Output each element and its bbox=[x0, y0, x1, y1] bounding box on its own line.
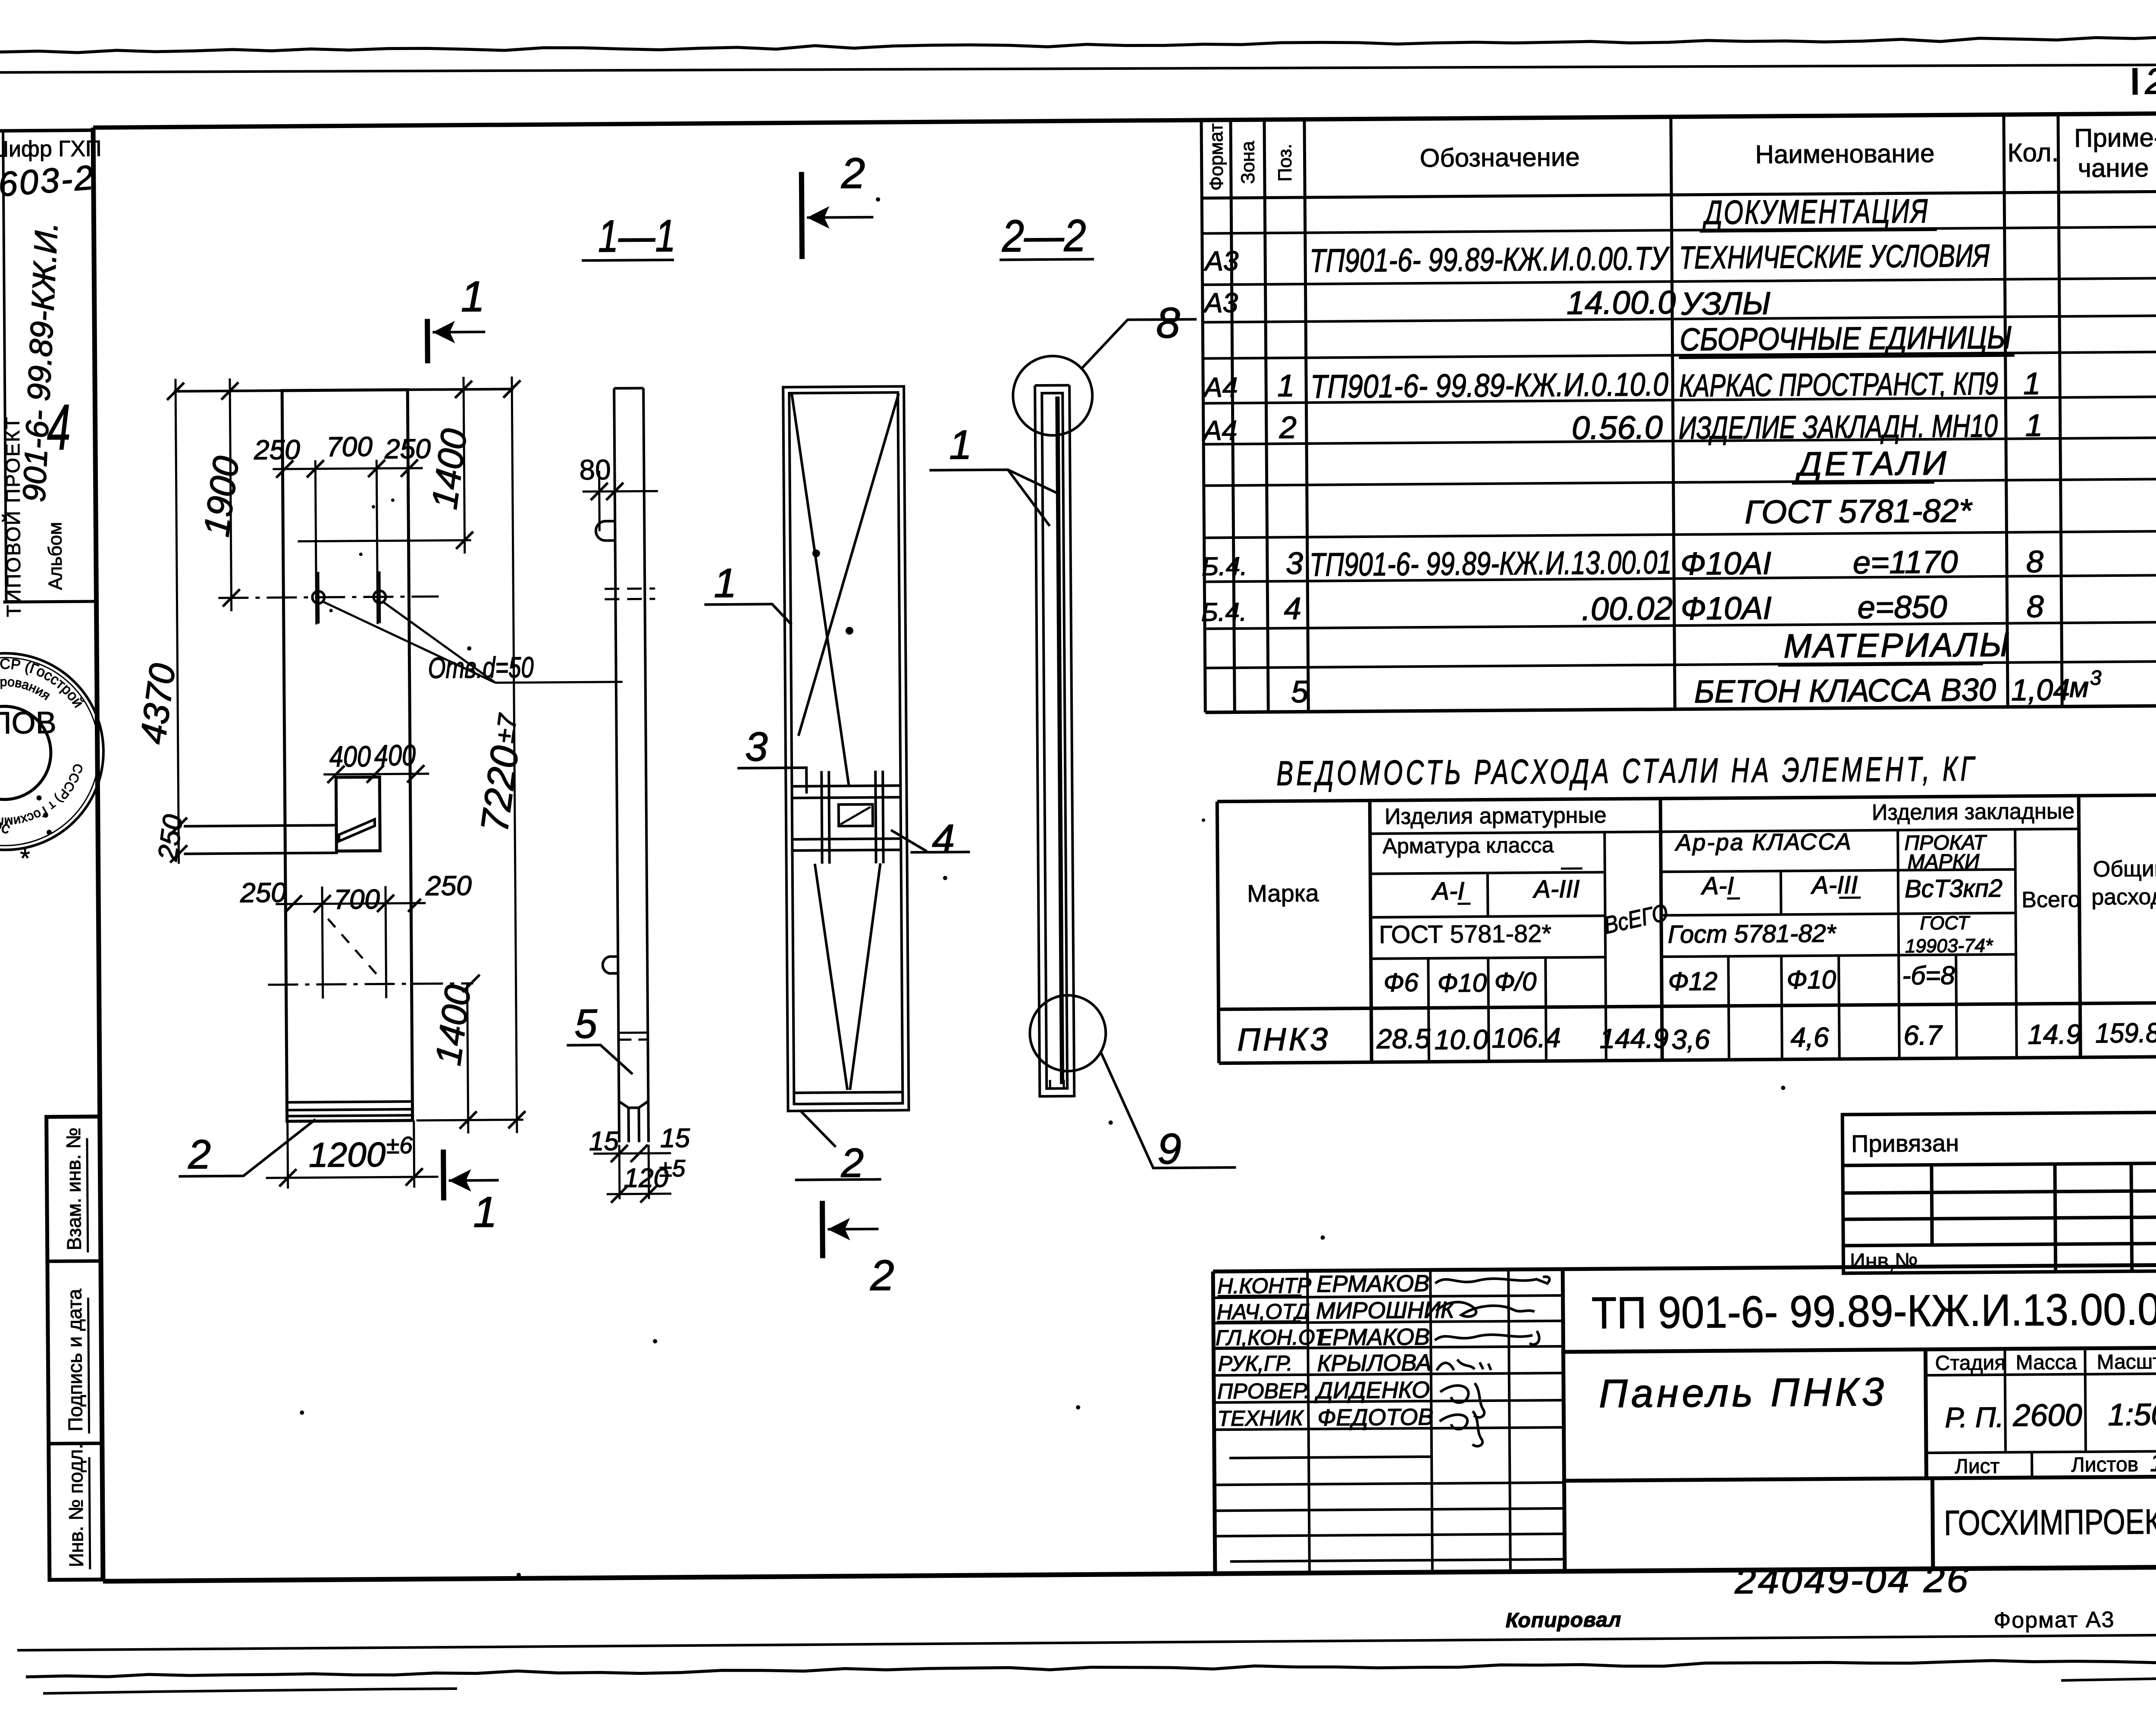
svg-text:ПРОВЕР.: ПРОВЕР. bbox=[1217, 1379, 1310, 1403]
torn paper edge top bbox=[0, 37, 2156, 53]
svg-text:1: 1 bbox=[2023, 366, 2041, 401]
svg-text:10.0: 10.0 bbox=[1434, 1024, 1488, 1055]
panel outline bbox=[282, 390, 413, 1121]
svg-text:А-I: А-I bbox=[1431, 877, 1465, 905]
svg-text:.00.02: .00.02 bbox=[1581, 590, 1673, 627]
svg-text:ТП901-6- 99.89-КЖ.И.13.00.01: ТП901-6- 99.89-КЖ.И.13.00.01 bbox=[1310, 544, 1672, 583]
svg-text:ТП901-6- 99.89-КЖ.И.0.00.ТУ: ТП901-6- 99.89-КЖ.И.0.00.ТУ bbox=[1310, 240, 1670, 279]
svg-text:Марка: Марка bbox=[1247, 879, 1319, 907]
cage outer rect bbox=[783, 386, 909, 1111]
svg-text:Изделия арматурные: Изделия арматурные bbox=[1385, 803, 1607, 829]
outer U bbox=[1035, 385, 1074, 1097]
svg-text:4: 4 bbox=[47, 391, 71, 463]
svg-text:ИЗДЕЛИЕ ЗАКЛАДН. МН10: ИЗДЕЛИЕ ЗАКЛАДН. МН10 bbox=[1679, 408, 1998, 446]
svg-text:25: 25 bbox=[2144, 61, 2156, 102]
svg-text:3: 3 bbox=[1286, 546, 1304, 581]
dim 80 bbox=[598, 471, 601, 531]
svg-text:ВЕДОМОСТЬ РАСХОДА СТАЛИ НА ЭЛЕ: ВЕДОМОСТЬ РАСХОДА СТАЛИ НА ЭЛЕМЕНТ, КГ bbox=[1276, 749, 1977, 792]
bottom fork bbox=[619, 1101, 629, 1142]
ledge notch mid-left bbox=[184, 825, 338, 826]
section mark 1 top bbox=[425, 319, 430, 363]
side view outline bbox=[614, 387, 643, 389]
svg-text:Общий: Общий bbox=[2093, 856, 2156, 882]
svg-text:А4: А4 bbox=[1202, 372, 1238, 403]
svg-text:ГОСХИМПРОЕКТ: ГОСХИМПРОЕКТ bbox=[1944, 1502, 2156, 1543]
svg-text:м: м bbox=[2069, 671, 2089, 703]
svg-text:1: 1 bbox=[2025, 408, 2043, 443]
svg-text:250: 250 bbox=[384, 433, 431, 465]
svg-text:1:50: 1:50 bbox=[2108, 1397, 2156, 1432]
round stamp bbox=[0, 653, 104, 851]
svg-text:Привязан: Привязан bbox=[1851, 1129, 1959, 1158]
hole right bbox=[373, 591, 385, 603]
svg-text:14.9: 14.9 bbox=[2028, 1019, 2081, 1050]
section mark 2 bottom bbox=[820, 1201, 825, 1258]
svg-text:2: 2 bbox=[1279, 410, 1297, 445]
svg-text:ТЕХНИЧЕСКИЕ УСЛОВИЯ: ТЕХНИЧЕСКИЕ УСЛОВИЯ bbox=[1679, 238, 1990, 275]
dim 120 +-5 bbox=[618, 1145, 621, 1199]
svg-text:250: 250 bbox=[254, 434, 301, 466]
svg-text:e=850: e=850 bbox=[1857, 589, 1947, 625]
svg-text:Гост 5781-82*: Гост 5781-82* bbox=[1668, 920, 1837, 949]
torn paper edge bottom bbox=[26, 1661, 2156, 1677]
svg-text:-б=8: -б=8 bbox=[1902, 961, 1955, 990]
svg-text:ГЛ,КОН.ОТ: ГЛ,КОН.ОТ bbox=[1216, 1325, 1330, 1350]
svg-text:Всего: Всего bbox=[2021, 887, 2081, 913]
svg-text:144.9: 144.9 bbox=[1599, 1023, 1669, 1054]
thin page border top bbox=[0, 65, 2156, 72]
svg-text:4,6: 4,6 bbox=[1790, 1022, 1829, 1053]
svg-text:Арматура класса: Арматура класса bbox=[1382, 833, 1554, 858]
dim 250 ledge bbox=[170, 818, 188, 863]
svg-text:14.00.0: 14.00.0 bbox=[1567, 284, 1676, 322]
svg-text:МАРКИ: МАРКИ bbox=[1908, 850, 1980, 873]
svg-text:Масштаб: Масштаб bbox=[2096, 1350, 2156, 1373]
lower centerline bbox=[268, 983, 473, 985]
dim 250 700 250 top bbox=[273, 468, 423, 469]
svg-text:80: 80 bbox=[579, 454, 611, 485]
svg-text:2: 2 bbox=[188, 1132, 211, 1177]
svg-text:Ф10: Ф10 bbox=[1437, 968, 1487, 998]
svg-text:ДОКУМЕНТАЦИЯ: ДОКУМЕНТАЦИЯ bbox=[1702, 192, 1929, 232]
svg-text:±5: ±5 bbox=[659, 1155, 686, 1182]
svg-text:4: 4 bbox=[932, 816, 955, 862]
svg-text:ДИДЕНКО: ДИДЕНКО bbox=[1314, 1377, 1430, 1404]
svg-text:А4: А4 bbox=[1202, 415, 1238, 446]
svg-text:Отв.d=50: Отв.d=50 bbox=[428, 651, 534, 685]
svg-text:КРЫЛОВА: КРЫЛОВА bbox=[1317, 1350, 1431, 1377]
svg-text:УЗЛЫ: УЗЛЫ bbox=[1681, 285, 1771, 322]
svg-text:РУК,ГР.: РУК,ГР. bbox=[1218, 1351, 1292, 1376]
svg-text:1—1: 1—1 bbox=[598, 211, 676, 262]
svg-text:ДЕТАЛИ: ДЕТАЛИ bbox=[1795, 444, 1949, 483]
svg-text:КАРКАС ПРОСТРАНСТ, КП9: КАРКАС ПРОСТРАНСТ, КП9 bbox=[1679, 366, 1999, 404]
inner U bbox=[1042, 393, 1067, 1089]
svg-text:А3: А3 bbox=[1203, 245, 1239, 277]
dim 1200+-6 bbox=[288, 1121, 288, 1189]
small console box bbox=[336, 777, 380, 851]
dim 7220+-7 line bbox=[512, 376, 517, 1133]
section mark 1 bottom bbox=[441, 1150, 446, 1201]
svg-text:1: 1 bbox=[461, 272, 485, 321]
dim 250 700 250 lower bbox=[276, 903, 426, 904]
holes centerline bbox=[218, 597, 439, 598]
svg-text:ГОСТ 5781-82*: ГОСТ 5781-82* bbox=[1745, 492, 1973, 531]
svg-text:Лист: Лист bbox=[1955, 1455, 2000, 1478]
svg-text:Инв. № подл.: Инв. № подл. bbox=[64, 1444, 88, 1567]
dim 400 400 bbox=[323, 774, 429, 775]
panel top extension line bbox=[174, 389, 514, 391]
svg-text:Кол.: Кол. bbox=[2007, 138, 2059, 167]
page number 25 bbox=[2132, 68, 2137, 95]
svg-text:Панель ПНК3: Панель ПНК3 bbox=[1599, 1370, 1888, 1416]
svg-text:Ф12: Ф12 bbox=[1668, 967, 1717, 996]
svg-text:Приме-: Приме- bbox=[2074, 123, 2156, 152]
svg-text:15: 15 bbox=[589, 1126, 619, 1156]
svg-text:1: 1 bbox=[1277, 369, 1295, 403]
svg-text:А-III: А-III bbox=[1532, 875, 1580, 904]
svg-text:400: 400 bbox=[374, 739, 416, 772]
svg-text:2: 2 bbox=[870, 1251, 894, 1299]
svg-text:2—2: 2—2 bbox=[1001, 210, 1086, 261]
svg-text:ГОСТ 5781-82*: ГОСТ 5781-82* bbox=[1379, 920, 1552, 949]
svg-text:Ф10АI: Ф10АI bbox=[1680, 545, 1772, 582]
svg-text:ЕРМАКОВ: ЕРМАКОВ bbox=[1317, 1324, 1430, 1351]
svg-text:250: 250 bbox=[240, 877, 287, 908]
svg-text:1200: 1200 bbox=[309, 1135, 386, 1174]
svg-text:Листов: Листов bbox=[2071, 1453, 2138, 1477]
svg-text:Копировал: Копировал bbox=[1505, 1608, 1621, 1632]
svg-text:ТП901-6- 99.89-КЖ.И.0.10.0: ТП901-6- 99.89-КЖ.И.0.10.0 bbox=[1310, 366, 1669, 405]
dim 1400 top line bbox=[464, 377, 465, 554]
dashed marks bbox=[605, 588, 655, 590]
lifting loop bottom bbox=[603, 957, 618, 973]
panel bottom strip lines bbox=[287, 1101, 412, 1102]
svg-text:15: 15 bbox=[660, 1123, 690, 1153]
svg-text:250: 250 bbox=[152, 813, 189, 863]
svg-text:8: 8 bbox=[2026, 544, 2044, 579]
svg-text:Ф6: Ф6 bbox=[1383, 968, 1419, 997]
svg-text:603-2: 603-2 bbox=[0, 158, 96, 203]
cage diagonals bbox=[792, 394, 849, 785]
svg-text:28.5: 28.5 bbox=[1376, 1023, 1430, 1054]
dim 1400 bottom bbox=[467, 983, 468, 1133]
detail circle 8 bbox=[1013, 356, 1093, 435]
svg-text:МИРОШНИК: МИРОШНИК bbox=[1316, 1297, 1456, 1324]
thin page border bottom bbox=[17, 1635, 2156, 1650]
svg-text:e=1170: e=1170 bbox=[1853, 544, 1958, 581]
dim 1900 line bbox=[230, 379, 232, 611]
svg-text:Б.4.: Б.4. bbox=[1201, 598, 1247, 627]
svg-text:ТЕХНИК: ТЕХНИК bbox=[1217, 1406, 1304, 1430]
svg-text:БЕТОН КЛАССА В30: БЕТОН КЛАССА В30 bbox=[1694, 672, 1996, 710]
svg-text:24049-04 26: 24049-04 26 bbox=[1734, 1559, 1970, 1601]
svg-text:0.56.0: 0.56.0 bbox=[1572, 409, 1663, 446]
svg-text:±6: ±6 bbox=[386, 1132, 413, 1158]
svg-text:Стадия: Стадия bbox=[1935, 1352, 2006, 1375]
svg-text:400: 400 bbox=[329, 740, 371, 773]
svg-text:ЛОВ: ЛОВ bbox=[0, 706, 56, 741]
svg-text:ВсТ3кп2: ВсТ3кп2 bbox=[1905, 874, 2002, 903]
section mark 2 top bbox=[802, 172, 802, 259]
svg-text:расход: расход bbox=[2091, 884, 2156, 910]
svg-text:8: 8 bbox=[1156, 299, 1181, 347]
svg-text:4: 4 bbox=[1284, 591, 1301, 626]
svg-text:700: 700 bbox=[334, 884, 380, 915]
svg-text:106.4: 106.4 bbox=[1492, 1022, 1561, 1054]
lower diagonals bbox=[815, 863, 848, 1090]
svg-text:Р. П.: Р. П. bbox=[1945, 1401, 2004, 1433]
drawing frame bottom bbox=[103, 1567, 2156, 1581]
svg-text:ПНК3: ПНК3 bbox=[1237, 1021, 1330, 1057]
leader Otv d=50 bbox=[323, 600, 622, 684]
svg-text:Альбом: Альбом bbox=[44, 522, 66, 590]
svg-text:1: 1 bbox=[473, 1188, 497, 1236]
svg-text:Изделия закладные: Изделия закладные bbox=[1872, 799, 2075, 825]
svg-text:6.7: 6.7 bbox=[1903, 1020, 1943, 1051]
svg-text:Инв,№: Инв,№ bbox=[1850, 1248, 1918, 1273]
detail circle 9 bbox=[1030, 995, 1106, 1071]
svg-text:3: 3 bbox=[2090, 666, 2102, 689]
svg-text:Формат А3: Формат А3 bbox=[1993, 1607, 2115, 1633]
left margin top box (Shifr GHP) bbox=[0, 130, 93, 131]
svg-text:Ф10АI: Ф10АI bbox=[1680, 590, 1772, 626]
svg-text:Наименование: Наименование bbox=[1755, 139, 1934, 169]
svg-text:2: 2 bbox=[840, 149, 865, 197]
svg-text:3,6: 3,6 bbox=[1671, 1024, 1710, 1055]
svg-text:Взам. инв. №: Взам. инв. № bbox=[62, 1127, 85, 1250]
svg-text:1: 1 bbox=[949, 422, 972, 468]
svg-text:5: 5 bbox=[1291, 675, 1309, 709]
svg-text:Обозначение: Обозначение bbox=[1420, 143, 1580, 173]
svg-text:2600: 2600 bbox=[2012, 1398, 2082, 1433]
svg-text:8: 8 bbox=[2026, 589, 2044, 624]
svg-text:чание: чание bbox=[2078, 153, 2149, 183]
svg-text:ФЕДОТОВ: ФЕДОТОВ bbox=[1317, 1404, 1433, 1431]
svg-text:А-III: А-III bbox=[1811, 871, 1858, 899]
lifting loop top bbox=[596, 521, 615, 541]
svg-text:1,04: 1,04 bbox=[2011, 673, 2070, 707]
svg-text:Ф/0: Ф/0 bbox=[1494, 967, 1536, 996]
svg-text:ТП 901-6- 99.89-КЖ.И.13.00.0: ТП 901-6- 99.89-КЖ.И.13.00.0 bbox=[1591, 1284, 2156, 1338]
svg-text:*: * bbox=[20, 844, 30, 873]
specks bbox=[876, 197, 880, 202]
svg-text:1: 1 bbox=[2150, 1449, 2156, 1477]
svg-text:ЕРМАКОВ: ЕРМАКОВ bbox=[1316, 1270, 1429, 1297]
mid line pair bbox=[618, 1032, 648, 1034]
drawing frame left bbox=[93, 128, 103, 1581]
svg-text:Зона: Зона bbox=[1237, 141, 1259, 184]
svg-text:Ар-ра КЛАССА: Ар-ра КЛАССА bbox=[1674, 829, 1852, 856]
drawing frame top bbox=[93, 113, 2156, 128]
svg-text:19903-74*: 19903-74* bbox=[1905, 935, 1993, 957]
svg-text:Масса: Масса bbox=[2015, 1351, 2077, 1374]
svg-text:5: 5 bbox=[574, 1001, 598, 1047]
svg-text:ГОСТ: ГОСТ bbox=[1920, 912, 1970, 934]
svg-text:3: 3 bbox=[745, 724, 768, 770]
svg-text:9: 9 bbox=[1157, 1125, 1181, 1173]
svg-text:Формат: Формат bbox=[1206, 123, 1227, 191]
svg-text:1: 1 bbox=[714, 560, 737, 606]
svg-text:А3: А3 bbox=[1203, 287, 1238, 319]
hole left bbox=[312, 591, 324, 603]
svg-text:Б.4.: Б.4. bbox=[1202, 552, 1247, 581]
dim 4370 line bbox=[175, 379, 179, 864]
svg-text:А-I: А-I bbox=[1701, 872, 1734, 900]
svg-text:МАТЕРИАЛЫ: МАТЕРИАЛЫ bbox=[1783, 626, 2011, 665]
cage bar thick bbox=[1057, 397, 1062, 1084]
svg-text:159.8: 159.8 bbox=[2095, 1017, 2156, 1048]
left margin lower box (Vzam/Podpis/Inv) bbox=[47, 1117, 103, 1580]
svg-text:700: 700 bbox=[326, 431, 373, 463]
svg-text:Ф10: Ф10 bbox=[1786, 965, 1836, 995]
svg-text:Подпись и дата: Подпись и дата bbox=[63, 1289, 86, 1432]
svg-text:±7: ±7 bbox=[490, 711, 523, 745]
belt mesh bbox=[792, 785, 900, 786]
signatures squiggles bbox=[1435, 1276, 1549, 1284]
svg-text:СБОРОЧНЫЕ ЕДИНИЦЫ: СБОРОЧНЫЕ ЕДИНИЦЫ bbox=[1680, 319, 2012, 357]
svg-text:250: 250 bbox=[425, 870, 472, 901]
svg-text:Поз.: Поз. bbox=[1274, 144, 1296, 181]
